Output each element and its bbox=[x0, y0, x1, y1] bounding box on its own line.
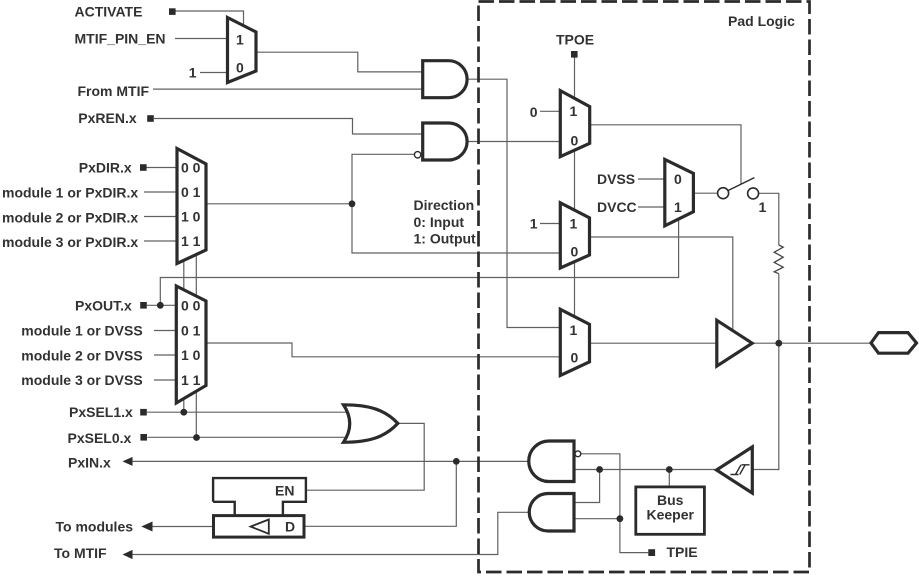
wire TPIE net bbox=[581, 454, 648, 553]
arrow To modules bbox=[141, 522, 152, 532]
svg-text:module 2 or DVSS: module 2 or DVSS bbox=[21, 347, 142, 363]
node schmitt-buskeeper junction bbox=[666, 466, 673, 473]
node PxIN junction bbox=[453, 458, 460, 465]
switch contact circle 1 bbox=[718, 188, 729, 199]
node direction junction bbox=[349, 200, 356, 207]
svg-text:1: 1 bbox=[570, 216, 578, 232]
wire direction mux U4 output to pad driver enable bbox=[590, 237, 733, 330]
OR gate G5 bbox=[344, 405, 398, 443]
arrow PxIN.x bbox=[123, 457, 133, 466]
AND gate G1 bbox=[423, 61, 467, 98]
svg-text:PxSEL0.x: PxSEL0.x bbox=[68, 430, 132, 446]
wire To MTIF from AND G4 output bbox=[133, 512, 530, 554]
svg-text:1: 1 bbox=[759, 199, 767, 215]
wire ACTIVATE to mux U1 select bbox=[176, 11, 244, 26]
wire constant 0 to TPOE mux U3 input 1 bbox=[540, 110, 561, 112]
wire pad node to Schmitt input bbox=[752, 343, 779, 469]
wire jog to AND G4 input A bbox=[574, 470, 600, 503]
wire direction node down to direction mux U4 input 0 bbox=[352, 204, 561, 253]
wire AND G2 output to TPOE mux U3 input 0 bbox=[467, 141, 561, 143]
switch contact circle 2 bbox=[748, 188, 759, 199]
svg-text:DVCC: DVCC bbox=[597, 199, 637, 215]
node pad junction bbox=[775, 340, 782, 347]
wire PxREN.x to AND G2 input A bbox=[154, 119, 424, 135]
svg-text:TPOE: TPOE bbox=[556, 32, 594, 48]
pad hexagon bbox=[871, 333, 917, 354]
svg-text:0: 0 bbox=[571, 350, 579, 366]
wire TPOE mux U3 output to switch control bbox=[590, 125, 741, 184]
wire DVCC to mux U6 input 1 bbox=[638, 206, 665, 208]
wire PxSEL1.x to OR G5 input A bbox=[147, 411, 351, 413]
latch D box bbox=[214, 516, 305, 538]
svg-text:1: 1 bbox=[530, 216, 538, 232]
svg-text:0: Input: 0: Input bbox=[414, 214, 465, 230]
wire mux U6 output to switch contact bbox=[693, 192, 717, 194]
mux U1 ACTIVATE select bbox=[228, 18, 257, 83]
svg-text:1: 1 bbox=[189, 65, 197, 81]
Schmitt trigger input buffer bbox=[717, 447, 753, 493]
wire PxSEL select vertical A through muxes bbox=[183, 248, 185, 412]
mux U4 direction select bbox=[560, 203, 589, 268]
svg-text:PxDIR.x: PxDIR.x bbox=[79, 160, 132, 176]
svg-text:0 0: 0 0 bbox=[181, 297, 201, 313]
wire TPIE to AND G4 input B bbox=[574, 518, 620, 520]
svg-text:0: 0 bbox=[571, 244, 579, 260]
svg-text:PxSEL1.x: PxSEL1.x bbox=[69, 404, 133, 420]
svg-text:module 1 or PxDIR.x: module 1 or PxDIR.x bbox=[2, 185, 138, 201]
latch EN box bbox=[213, 478, 306, 515]
arrow To MTIF bbox=[123, 550, 133, 559]
terminal square PxSEL1.x bbox=[140, 409, 147, 416]
svg-text:0: 0 bbox=[571, 133, 579, 149]
wire module 1 or DVSS to mux U7 bbox=[154, 330, 176, 332]
svg-text:1: 1 bbox=[570, 103, 578, 119]
svg-text:module 2 or PxDIR.x: module 2 or PxDIR.x bbox=[2, 209, 138, 225]
svg-text:Direction: Direction bbox=[414, 197, 475, 213]
wire switch to resistor and pad bbox=[759, 193, 779, 245]
svg-text:1 0: 1 0 bbox=[181, 209, 201, 225]
svg-text:To MTIF: To MTIF bbox=[54, 545, 107, 561]
wire DVSS to mux U6 input 0 bbox=[638, 178, 665, 180]
svg-text:Pad Logic: Pad Logic bbox=[728, 13, 795, 29]
svg-text:1: 1 bbox=[674, 199, 682, 215]
latch clock triangle bbox=[251, 520, 269, 534]
wire select chain mux U4 to mux U5 bbox=[574, 261, 576, 318]
svg-text:0 1: 0 1 bbox=[181, 323, 201, 339]
svg-text:Keeper: Keeper bbox=[647, 507, 695, 523]
terminal square TPOE bbox=[571, 51, 578, 58]
bubble on AND G2 input bbox=[414, 152, 420, 158]
pad driver buffer bbox=[717, 320, 752, 366]
wire module 3 or DVSS to mux U7 bbox=[154, 379, 176, 381]
wire constant 1 to mux U1 input 0 bbox=[200, 72, 228, 74]
svg-text:DVSS: DVSS bbox=[597, 171, 635, 187]
terminal square TPIE bbox=[648, 549, 655, 556]
svg-text:TPIE: TPIE bbox=[667, 544, 698, 560]
svg-text:1: Output: 1: Output bbox=[414, 231, 477, 247]
svg-text:0 0: 0 0 bbox=[181, 160, 201, 176]
Bus Keeper box bbox=[636, 487, 705, 534]
node PxSEL0 junction bbox=[193, 434, 200, 441]
wire mux U1 output to AND G1 input A bbox=[256, 52, 424, 72]
svg-text:1 1: 1 1 bbox=[181, 372, 201, 388]
svg-text:module 3 or DVSS: module 3 or DVSS bbox=[21, 372, 142, 388]
AND gate G3 (PxIN, faces left) bbox=[529, 441, 574, 482]
svg-text:To modules: To modules bbox=[56, 519, 134, 535]
svg-text:PxREN.x: PxREN.x bbox=[78, 110, 137, 126]
wire To modules from latch bbox=[153, 526, 214, 528]
svg-text:PxOUT.x: PxOUT.x bbox=[75, 297, 132, 313]
wire direction node up to AND G2 inverted input bbox=[352, 154, 415, 204]
AND gate G4 (To MTIF, faces left) bbox=[529, 494, 574, 532]
switch lever bbox=[728, 178, 755, 191]
terminal square PxREN.x bbox=[147, 115, 154, 122]
wire PxDIR mux U2 output to direction node bbox=[206, 203, 352, 205]
wire PxSEL select vertical B through muxes bbox=[195, 248, 197, 438]
wire Schmitt output to AND G3 input B bbox=[574, 469, 717, 471]
wire module 2 or PxDIR.x to mux U2 bbox=[144, 216, 177, 218]
svg-text:EN: EN bbox=[275, 483, 294, 499]
svg-text:1 1: 1 1 bbox=[181, 233, 201, 249]
terminal square PxOUT.x bbox=[140, 302, 147, 309]
svg-text:ACTIVATE: ACTIVATE bbox=[75, 4, 143, 20]
node schmitt-AND4 junction bbox=[596, 466, 603, 473]
wire select chain mux U3 to mux U4 bbox=[574, 151, 576, 212]
bubble on AND G3 inverted input bbox=[575, 451, 581, 457]
Schmitt hysteresis symbol bbox=[731, 465, 750, 475]
svg-text:1 0: 1 0 bbox=[181, 347, 201, 363]
wire AND G1 output to pad mux U5 input 1 bbox=[467, 79, 561, 327]
Pad Logic dashed boundary bbox=[479, 2, 810, 573]
wire D latch input from PxIN node bbox=[304, 461, 456, 526]
terminal square ACTIVATE bbox=[169, 8, 176, 15]
svg-text:D: D bbox=[285, 519, 295, 535]
svg-text:PxIN.x: PxIN.x bbox=[68, 455, 111, 471]
wire TPOE select to mux U3 bbox=[574, 57, 576, 98]
mux U2 PxDIR select bbox=[177, 149, 206, 264]
wire PxOUT.x to mux U7 bbox=[147, 304, 176, 306]
wire resistor to pad node bbox=[778, 274, 780, 344]
wire PxDIR.x to mux U2 bbox=[147, 167, 178, 169]
wire mux U6 select from PxOUT node bbox=[160, 218, 678, 305]
wire MTIF_PIN_EN to mux U1 input 1 bbox=[175, 38, 228, 40]
svg-text:1: 1 bbox=[570, 322, 578, 338]
svg-text:module 1 or DVSS: module 1 or DVSS bbox=[21, 323, 142, 339]
svg-text:From MTIF: From MTIF bbox=[78, 83, 150, 99]
mux U6 DVSS DVCC select bbox=[665, 159, 694, 225]
svg-text:0: 0 bbox=[236, 60, 244, 76]
node PxOUT junction bbox=[157, 302, 164, 309]
wire pad mux U5 output to pad driver bbox=[590, 342, 717, 344]
AND gate G2 with inverted input bbox=[423, 123, 467, 160]
wire From MTIF to AND G1 input B bbox=[153, 88, 424, 90]
svg-text:module 3 or PxDIR.x: module 3 or PxDIR.x bbox=[2, 234, 138, 250]
mux U5 pad output select bbox=[560, 309, 589, 375]
node PxSEL1 junction bbox=[180, 409, 187, 416]
wire constant 1 to direction mux U4 input 1 bbox=[540, 223, 561, 225]
wire pad driver output to pad bbox=[752, 342, 871, 344]
wire PxOUT mux U7 output to pad mux U5 input 0 bbox=[206, 343, 561, 357]
terminal square PxDIR.x bbox=[140, 164, 147, 171]
wire OR G5 output to latch EN bbox=[306, 423, 424, 490]
terminal square PxSEL0.x bbox=[140, 434, 147, 441]
node TPIE-AND4 junction bbox=[617, 515, 624, 522]
wire PxSEL0.x to OR G5 input B bbox=[148, 436, 352, 438]
svg-text:0 1: 0 1 bbox=[181, 184, 201, 200]
resistor R1 bbox=[774, 245, 783, 274]
mux U7 PxOUT select bbox=[176, 286, 206, 403]
wire module 3 or PxDIR.x to mux U2 bbox=[144, 240, 177, 242]
svg-text:0: 0 bbox=[674, 171, 682, 187]
wire module 1 or PxDIR.x to mux U2 bbox=[144, 191, 177, 193]
wire PxIN.x from AND G3 output bbox=[133, 460, 530, 462]
svg-text:0: 0 bbox=[530, 104, 538, 120]
svg-text:MTIF_PIN_EN: MTIF_PIN_EN bbox=[75, 31, 166, 47]
wire module 2 or DVSS to mux U7 bbox=[154, 354, 176, 356]
wire schmitt line to Bus Keeper bbox=[668, 470, 670, 487]
svg-text:1: 1 bbox=[236, 32, 244, 48]
mux U3 TPOE select bbox=[560, 91, 589, 157]
